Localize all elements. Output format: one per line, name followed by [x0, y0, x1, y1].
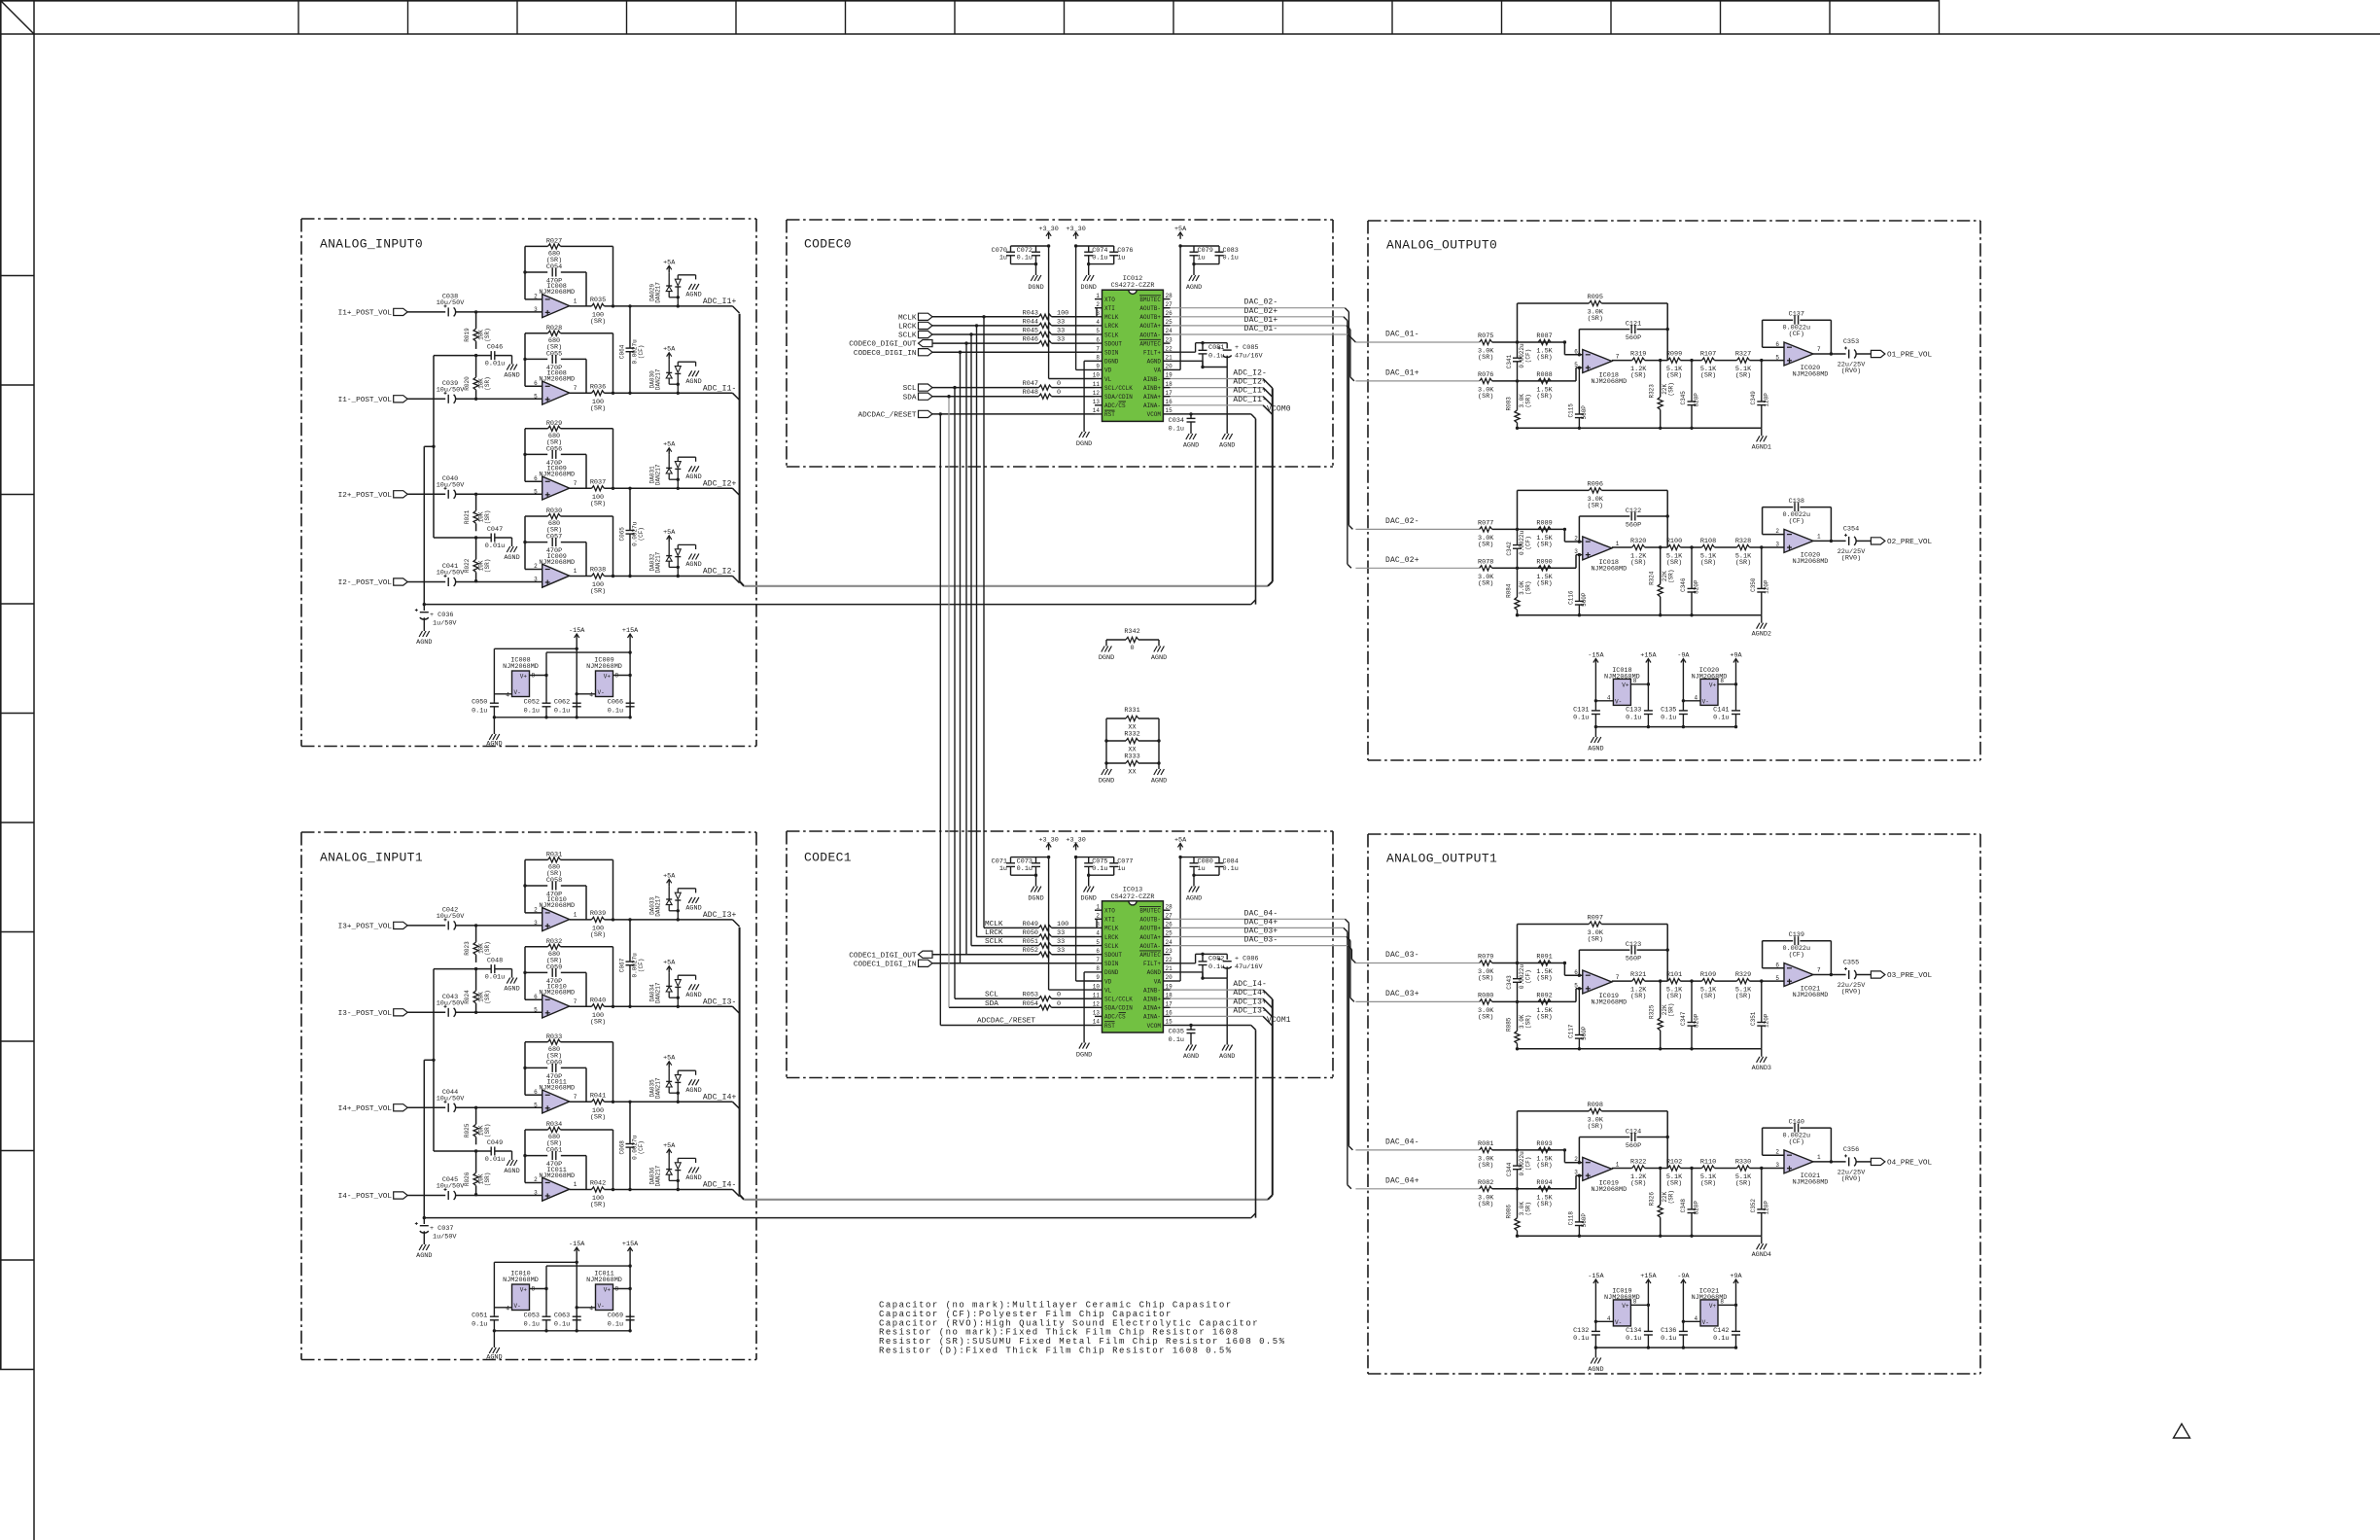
svg-text:0.1u: 0.1u [524, 1321, 540, 1329]
svg-text:33: 33 [1057, 947, 1065, 955]
svg-text:-15A: -15A [1588, 1273, 1604, 1280]
capacitor C121 560P feedback [1578, 353, 1581, 356]
capacitor C050 0.1u [493, 701, 495, 703]
svg-text:ADC_I3+: ADC_I3+ [703, 911, 737, 920]
svg-text:1u/50V: 1u/50V [433, 1234, 457, 1242]
svg-text:MCLK: MCLK [1104, 314, 1119, 321]
svg-text:C054: C054 [546, 263, 562, 271]
capacitor C342 0.0022u (CF) [1516, 528, 1519, 531]
net tag SCL [919, 384, 933, 391]
svg-text:+9A: +9A [1730, 652, 1742, 660]
svg-text:AGND: AGND [504, 1168, 519, 1175]
op-amp IC021 [1784, 963, 1813, 987]
svg-text:R019: R019 [464, 328, 471, 342]
connector tag I2+_POST_VOL [394, 491, 408, 498]
svg-text:15: 15 [1166, 1019, 1173, 1026]
svg-text:R092: R092 [1536, 992, 1552, 999]
svg-text:27: 27 [1166, 913, 1173, 920]
svg-text:AINB-: AINB- [1143, 987, 1161, 994]
svg-text:BMUTEC: BMUTEC [1139, 297, 1161, 303]
svg-text:AGND: AGND [1183, 442, 1199, 450]
svg-text:C342: C342 [1506, 542, 1513, 556]
capacitor C043 10u/50V [447, 1008, 449, 1017]
svg-text:0.01u: 0.01u [485, 361, 505, 368]
wire DAC- input rail [1355, 962, 1479, 964]
svg-text:1: 1 [574, 568, 577, 575]
svg-text:+5A: +5A [663, 960, 676, 967]
op-amp IC019 [1583, 970, 1612, 994]
svg-text:V+: V+ [604, 674, 612, 681]
svg-text:CODEC1_DIGI_OUT: CODEC1_DIGI_OUT [849, 952, 917, 960]
capacitor C035 0.1u VCOM [1189, 1024, 1192, 1027]
power +3_30 right [1075, 843, 1077, 850]
capacitor C346 820P to ground [1690, 545, 1693, 548]
capacitor C141 0.1u [1735, 666, 1737, 711]
wire +5A to VA pin20 [1179, 857, 1181, 981]
wire VCOM pin15 [1171, 1025, 1251, 1027]
svg-text:0.1u: 0.1u [1208, 963, 1224, 971]
svg-text:(SR): (SR) [1666, 559, 1682, 567]
wire power block rails [576, 641, 577, 717]
capacitor C062 0.1u [576, 701, 577, 703]
svg-text:V+: V+ [520, 674, 528, 681]
capacitor C060 470P feedback [523, 1067, 526, 1069]
ground AGND power block [489, 734, 492, 740]
svg-text:(SR): (SR) [1525, 580, 1532, 594]
svg-text:20: 20 [1166, 974, 1173, 981]
svg-text:(SR): (SR) [1735, 1180, 1751, 1188]
svg-text:6: 6 [1574, 969, 1578, 976]
svg-text:CS4272-CZZR: CS4272-CZZR [1111, 893, 1155, 901]
svg-text:DAC_02+: DAC_02+ [1385, 556, 1419, 565]
svg-text:NJM2068MD: NJM2068MD [1793, 558, 1829, 566]
wire bias chain junctions [474, 310, 477, 313]
svg-text:ADC_I1+: ADC_I1+ [703, 297, 737, 306]
svg-text:RST: RST [1104, 411, 1115, 418]
svg-text:100: 100 [1057, 921, 1068, 928]
svg-text:XTO: XTO [1104, 908, 1115, 915]
svg-text:R032: R032 [546, 938, 562, 946]
svg-text:SDA/CDIN: SDA/CDIN [1104, 394, 1133, 401]
capacitor C069 0.1u [629, 1314, 631, 1316]
svg-text:R029: R029 [546, 420, 562, 428]
svg-text:R046: R046 [1023, 336, 1038, 344]
capacitor C345 820P to ground [1690, 359, 1693, 362]
capacitor C068 0.0027u (CF) [629, 1102, 631, 1143]
wire to ADC bus entry [733, 1102, 740, 1108]
wire ground rail [1518, 427, 1762, 429]
svg-text:R102: R102 [1666, 1159, 1682, 1167]
wire +3.3V to VD pin9 [1075, 857, 1077, 981]
resistor R088 1.5K (SR) [1538, 378, 1551, 383]
svg-text:V+: V+ [1709, 1303, 1717, 1310]
svg-text:1u: 1u [1117, 255, 1125, 262]
resistor R044 33 [1039, 323, 1052, 328]
svg-text:0.1u: 0.1u [1573, 715, 1589, 722]
capacitor pair C074 C076 DGND [1076, 245, 1114, 247]
op-amp IC011 [542, 1090, 570, 1113]
svg-text:(SR): (SR) [1536, 393, 1552, 401]
resistor R325 22K (SR) to ground [1659, 979, 1662, 982]
svg-text:470P: 470P [546, 1073, 562, 1081]
svg-text:AGND2: AGND2 [1752, 631, 1771, 639]
svg-text:R332: R332 [1124, 731, 1139, 739]
svg-text:5: 5 [1574, 982, 1578, 989]
ground DGND R342 [1102, 647, 1104, 652]
svg-text:R325: R325 [1649, 1004, 1656, 1019]
svg-text:ADC/CS: ADC/CS [1104, 1014, 1126, 1021]
power +5A clamp DA029 [668, 265, 670, 272]
wire op-amp1 inputs [1563, 529, 1565, 542]
capacitor C133 0.1u [1647, 666, 1649, 711]
resistor R324 22K (SR) to ground [1659, 545, 1662, 548]
svg-text:FILT+: FILT+ [1143, 350, 1161, 357]
svg-text:2: 2 [1574, 536, 1578, 542]
net tag LRCK [919, 322, 933, 329]
svg-text:17: 17 [1166, 390, 1173, 397]
wire op-amp1 inputs [1563, 963, 1565, 976]
wire to ADC bus entry [733, 1190, 740, 1197]
ground AGND bias [507, 1160, 509, 1166]
op-amp IC021 [1784, 1150, 1813, 1173]
ground DGND R333 [1102, 769, 1104, 775]
svg-text:-15A: -15A [569, 627, 585, 635]
svg-text:28: 28 [1166, 293, 1173, 299]
svg-text:+15A: +15A [622, 627, 639, 635]
svg-text:8: 8 [1720, 1299, 1724, 1306]
svg-text:DAC_02-: DAC_02- [1244, 298, 1278, 307]
capacitor C139 0.0022u (CF) feedback2 [1763, 940, 1794, 942]
capacitor C353 22u/25V (RV0) [1813, 353, 1846, 355]
svg-text:C356: C356 [1843, 1146, 1859, 1154]
svg-text:4: 4 [506, 692, 509, 699]
svg-text:C081: C081 [1208, 344, 1224, 352]
svg-text:6: 6 [1574, 348, 1578, 355]
svg-text:DAC_03+: DAC_03+ [1385, 990, 1419, 998]
svg-text:V+: V+ [1622, 682, 1629, 689]
svg-text:I4-_POST_VOL: I4-_POST_VOL [338, 1193, 393, 1201]
svg-text:(SR): (SR) [1525, 1015, 1532, 1029]
svg-text:ADC_I4+: ADC_I4+ [703, 1093, 737, 1102]
ground AGND1 [1757, 436, 1760, 441]
resistor R076 3.0K (SR) [1480, 378, 1492, 383]
svg-text:LRCK: LRCK [1104, 934, 1119, 941]
svg-text:AINA+: AINA+ [1143, 394, 1161, 401]
connector tag I4-_POST_VOL [394, 1192, 408, 1199]
svg-text:DGND: DGND [1076, 1052, 1092, 1060]
svg-text:ADC_I3-: ADC_I3- [1233, 1006, 1267, 1015]
diode pair DA032 DAN217 clamp [668, 542, 670, 556]
wire op-amp output [570, 1005, 592, 1007]
resistor R049 100 [1039, 926, 1052, 930]
svg-text:Resistor (D):Fixed Thick Film: Resistor (D):Fixed Thick Film Chip Resis… [879, 1347, 1233, 1356]
wire V+ supply IC018 [1630, 683, 1648, 685]
svg-text:470P: 470P [546, 891, 562, 898]
svg-text:10u/50V: 10u/50V [437, 481, 465, 489]
svg-text:(SR): (SR) [1478, 354, 1493, 362]
ADC bus horizontal rail [744, 585, 1268, 587]
resistor R042 100 (SR) [592, 1187, 605, 1192]
capacitor C134 0.1u [1647, 1286, 1649, 1331]
svg-text:I3+_POST_VOL: I3+_POST_VOL [338, 924, 393, 931]
svg-text:R097: R097 [1588, 915, 1603, 923]
svg-text:3: 3 [1574, 548, 1578, 555]
op-amp power block IC020 [1700, 679, 1718, 705]
svg-text:(SR): (SR) [484, 559, 491, 573]
op-amp power block IC009 [596, 671, 613, 697]
svg-text:R323: R323 [1649, 384, 1656, 399]
svg-text:AGND: AGND [685, 904, 701, 912]
svg-text:560P: 560P [1626, 1142, 1641, 1150]
svg-text:AGND: AGND [416, 1252, 432, 1260]
svg-text:4: 4 [506, 1306, 509, 1312]
capacitor C115 560P to ground [1578, 367, 1581, 369]
svg-text:V+: V+ [1709, 682, 1717, 689]
net tag SDA [919, 393, 933, 400]
svg-text:3: 3 [534, 577, 538, 583]
svg-text:DAC_03+: DAC_03+ [1244, 927, 1278, 936]
capacitor pair C075 C077 DGND [1076, 857, 1114, 858]
svg-text:1u: 1u [999, 255, 1007, 262]
svg-text:0.1u: 0.1u [1626, 1335, 1641, 1343]
svg-text:10u/50V: 10u/50V [437, 386, 465, 394]
svg-text:C345: C345 [1680, 391, 1687, 405]
svg-text:VA: VA [1154, 978, 1162, 985]
svg-text:C053: C053 [524, 1312, 540, 1320]
svg-text:DAN217: DAN217 [654, 895, 661, 917]
svg-text:+5A: +5A [1174, 836, 1187, 844]
svg-text:1: 1 [574, 1181, 577, 1188]
svg-text:R045: R045 [1023, 328, 1038, 335]
ground AGND filter [1226, 978, 1228, 1045]
resistor R078 3.0K (SR) [1480, 566, 1492, 571]
capacitor C081 0.1u FILT+ [1171, 351, 1196, 353]
power -15A [576, 634, 577, 641]
resistor R035 100 (SR) [592, 303, 605, 308]
svg-text:13: 13 [1093, 1010, 1101, 1017]
ground AGND bias [507, 546, 509, 552]
wire V+ supply IC020 [1718, 683, 1736, 685]
capacitor C138 0.0022u (CF) feedback2 [1763, 507, 1794, 508]
svg-text:-9A: -9A [1677, 1273, 1690, 1280]
svg-text:R098: R098 [1588, 1102, 1603, 1109]
ground AGND C037 [419, 1244, 422, 1250]
svg-text:C082: C082 [1208, 956, 1224, 963]
wire VCOM to rail [1251, 414, 1256, 419]
capacitor C343 0.0022u (CF) [1516, 962, 1519, 964]
svg-text:820P: 820P [1694, 1013, 1700, 1028]
svg-text:DGND: DGND [1028, 895, 1043, 903]
svg-text:C346: C346 [1680, 577, 1687, 592]
svg-text:(SR): (SR) [1630, 993, 1646, 1000]
svg-text:0.01u: 0.01u [485, 1156, 505, 1164]
svg-text:DGND: DGND [1028, 284, 1043, 292]
svg-text:NJM2068MD: NJM2068MD [539, 902, 575, 910]
svg-text:DAC_03-: DAC_03- [1385, 951, 1419, 960]
svg-text:7: 7 [574, 1094, 577, 1101]
wire ground rail [1518, 1048, 1762, 1050]
svg-text:DGND: DGND [1099, 654, 1114, 662]
svg-text:3: 3 [534, 306, 538, 313]
svg-text:20: 20 [1166, 364, 1173, 370]
svg-text:C354: C354 [1843, 525, 1859, 533]
svg-text:470P: 470P [546, 365, 562, 372]
svg-text:R053: R053 [1023, 992, 1038, 999]
svg-text:0: 0 [1130, 645, 1134, 652]
svg-text:0.1u: 0.1u [608, 1321, 623, 1329]
svg-text:1u: 1u [1198, 865, 1206, 873]
svg-text:V-: V- [1615, 699, 1622, 706]
svg-text:V-: V- [514, 1303, 521, 1310]
svg-text:7: 7 [1616, 354, 1620, 361]
svg-text:NJM2068MD: NJM2068MD [539, 559, 575, 567]
svg-text:DGND: DGND [1081, 895, 1097, 903]
svg-text:R110: R110 [1700, 1159, 1716, 1167]
svg-text:C058: C058 [546, 877, 562, 885]
resistor R101 5.1K (SR) [1668, 979, 1681, 984]
svg-text:1: 1 [1096, 903, 1100, 910]
connector tag I2-_POST_VOL [394, 578, 408, 585]
resistor R022 10K (SR) [473, 559, 478, 572]
diode pair DA036 DAN217 clamp [668, 1156, 670, 1170]
svg-text:560P: 560P [1626, 521, 1641, 529]
svg-text:(CF): (CF) [1789, 1138, 1804, 1146]
svg-text:(SR): (SR) [1478, 579, 1493, 587]
svg-text:14: 14 [1093, 1019, 1101, 1026]
wire feedback in- [525, 385, 542, 387]
op-amp power block IC021 [1700, 1300, 1718, 1326]
resistor R092 1.5K (SR) [1538, 999, 1551, 1004]
svg-text:R331: R331 [1124, 707, 1139, 715]
resistor R102 5.1K (SR) [1668, 1166, 1681, 1171]
svg-text:AGND: AGND [685, 1174, 701, 1182]
svg-text:(SR): (SR) [1735, 372, 1751, 380]
wire +3.3V to VL pin10 [1048, 246, 1050, 379]
svg-text:ANALOG_INPUT0: ANALOG_INPUT0 [320, 237, 423, 252]
svg-text:(CF): (CF) [638, 1140, 645, 1154]
svg-text:DGND: DGND [1104, 359, 1119, 366]
svg-text:0.1u: 0.1u [1208, 353, 1224, 361]
svg-text:-15A: -15A [569, 1241, 585, 1248]
ground AGND output power [1591, 737, 1593, 743]
ground AGND clamp DA029 [688, 284, 691, 290]
wire XTI jog [1096, 919, 1098, 927]
wire DAC+ input rail [1355, 1000, 1479, 1002]
svg-text:(CF): (CF) [1525, 969, 1532, 983]
svg-text:R036: R036 [590, 383, 606, 391]
ground AGND clamp DA032 [688, 554, 691, 560]
svg-text:SDIN: SDIN [1104, 961, 1119, 967]
svg-text:10u/50V: 10u/50V [437, 913, 465, 921]
svg-text:560P: 560P [1581, 592, 1588, 607]
svg-text:0.1u: 0.1u [1573, 1335, 1589, 1343]
svg-text:8: 8 [1096, 965, 1100, 972]
svg-text:(SR): (SR) [1735, 559, 1751, 567]
capacitor C061 470P feedback [523, 1154, 526, 1157]
wire op-amp1 inputs [1563, 1150, 1565, 1163]
resistor R087 1.5K (SR) [1538, 339, 1551, 344]
capacitor C351 120P to ground [1760, 979, 1763, 982]
wire op-amp output [570, 305, 592, 307]
svg-text:(SR): (SR) [1525, 394, 1532, 407]
svg-text:SDOUT: SDOUT [1104, 340, 1122, 347]
wire op-amp1 output chain [1612, 360, 1632, 362]
wire power block rails [576, 1254, 577, 1331]
svg-text:4: 4 [589, 692, 593, 699]
svg-text:24: 24 [1166, 939, 1173, 946]
svg-text:R026: R026 [464, 1172, 471, 1186]
svg-text:R327: R327 [1735, 351, 1751, 359]
svg-text:C139: C139 [1789, 931, 1804, 939]
op-amp power block IC008 [512, 671, 530, 697]
ground AGND clamp DA033 [688, 897, 691, 903]
wire DAC- input rail [1355, 528, 1479, 530]
svg-text:R333: R333 [1124, 753, 1139, 761]
svg-text:120P: 120P [1763, 579, 1769, 594]
svg-text:CODEC0_DIGI_OUT: CODEC0_DIGI_OUT [849, 341, 917, 349]
svg-text:(SR): (SR) [1700, 993, 1716, 1000]
svg-text:+5A: +5A [663, 872, 676, 880]
resistor R321 1.2K (SR) [1632, 979, 1645, 984]
resistor R329 5.1K (SR) [1737, 979, 1750, 984]
svg-text:AGND: AGND [1183, 1053, 1199, 1061]
wire V- supply IC020 [1683, 700, 1700, 702]
svg-text:(SR): (SR) [1525, 1202, 1532, 1215]
ground AGND4 [1757, 1243, 1760, 1249]
svg-text:O4_PRE_VOL: O4_PRE_VOL [1887, 1160, 1933, 1168]
svg-text:16: 16 [1166, 1010, 1173, 1017]
block ANALOG_OUTPUT0 box [1368, 220, 1980, 222]
resistor R085 3.0K (SR) to ground [1517, 1001, 1519, 1031]
frame tick marks top edge [297, 0, 299, 34]
resistor R093 1.5K (SR) [1538, 1147, 1551, 1152]
connector tag O2_PRE_VOL [1871, 538, 1885, 544]
power +15A [1647, 659, 1649, 666]
resistor R031 680 (SR) feedback [524, 859, 526, 913]
wire input I3-_POST_VOL [407, 1011, 445, 1013]
svg-text:AOUTA-: AOUTA- [1139, 332, 1161, 338]
svg-text:560P: 560P [1581, 1213, 1588, 1228]
resistor R084 3.0K (SR) to ground [1517, 568, 1519, 597]
ground AGND clamp DA030 [688, 370, 691, 376]
svg-text:V+: V+ [1622, 1303, 1629, 1310]
svg-text:21: 21 [1166, 355, 1173, 362]
svg-text:0.1u: 0.1u [1713, 715, 1729, 722]
svg-text:0.01u: 0.01u [485, 974, 505, 982]
resistor R094 1.5K (SR) [1538, 1186, 1551, 1191]
svg-text:C069: C069 [608, 1312, 623, 1320]
wire output power bottom rail [1595, 1347, 1735, 1348]
svg-text:2: 2 [1574, 1156, 1578, 1163]
wire bias vertical link [433, 969, 435, 1151]
resistor R099 5.1K (SR) [1668, 358, 1681, 363]
svg-text:AGND: AGND [486, 741, 502, 749]
svg-text:V-: V- [1615, 1319, 1622, 1326]
svg-text:R330: R330 [1735, 1159, 1751, 1167]
svg-text:ANALOG_OUTPUT1: ANALOG_OUTPUT1 [1386, 852, 1497, 866]
svg-text:I3-_POST_VOL: I3-_POST_VOL [338, 1010, 393, 1018]
svg-text:NJM2068MD: NJM2068MD [539, 472, 575, 479]
svg-text:R093: R093 [1536, 1140, 1552, 1148]
svg-text:19: 19 [1166, 983, 1173, 990]
svg-text:AGND: AGND [486, 1354, 502, 1362]
svg-text:10: 10 [1093, 372, 1101, 379]
svg-text:7: 7 [574, 998, 577, 1005]
svg-text:0.1u: 0.1u [1092, 255, 1107, 262]
wire control bus bundle between codecs [939, 414, 941, 1026]
ground AGND R342 [1154, 647, 1157, 652]
op-amp IC009 [542, 564, 570, 587]
